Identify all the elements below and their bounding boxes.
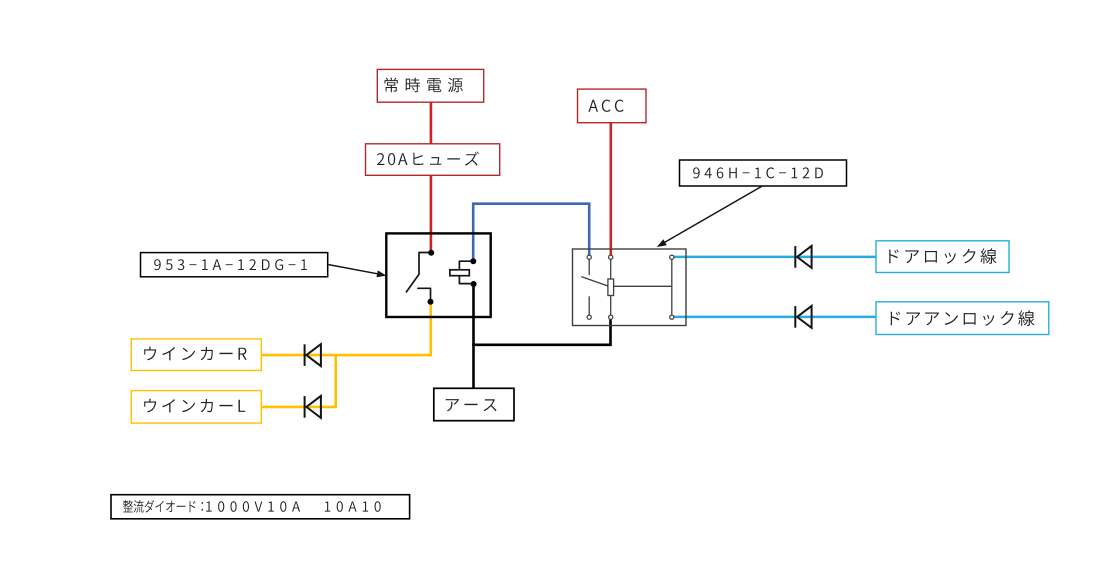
relay K1 switch lower terminal path [418,288,431,301]
relay K2 switch blade [581,277,608,287]
relay K2 coil lead lower [610,296,612,316]
relay K2 output vertical link [671,260,673,316]
relay K1 coil lead upper [459,261,473,270]
wire black: ground junction down to earth box [472,345,475,389]
relay K1 coil lead lower [459,276,473,284]
callout arrow to relay K2 [664,186,763,243]
diode D2 (winker L branch) [304,396,306,418]
wire yellow: relay K1 switch output down [429,303,432,356]
relay K1 body 953-1A-12DG-1 [386,233,490,317]
diode D4 (door unlock line) [794,306,796,328]
relay K2 body 946H-1C-12D [573,249,687,326]
wire yellow: horizontal to winker R [261,354,432,357]
wire black: ground bus up to relay K2 coil pin [609,319,612,346]
relay K1 switch contact path [406,253,431,292]
relay K1 coil pin dot (blue side) [470,258,476,264]
wire black: ground bus horizontal [472,343,610,346]
relay K2 pin terminal top-mid [609,255,613,259]
relay K1 pin dot output (yellow) [428,299,434,305]
wire black: relay K1 coil to ground junction [472,285,475,346]
node box 常時電源 (constant power) [377,69,483,102]
relay K2 pin terminal bottom-left [587,315,591,319]
callout arrow to relay K1 [329,265,380,275]
diode D3 (door lock line) [794,246,796,268]
relay K1 coil pin dot (black side) [471,281,477,287]
node box ドアアンロック線 (door unlock wire) [876,302,1049,335]
note box 整流ダイオード spec [111,495,410,519]
fuse box 20Aヒューズ [366,144,500,176]
wire red: 20A fuse to relay K1 pin [430,175,433,253]
node box ドアロック線 (door lock wire) [876,241,1009,273]
relay K1 coil body [450,270,469,276]
relay K1 pin dot common (red feed) [428,250,434,256]
label box 946H-1C-12D [680,160,847,186]
ground box アース (earth) [434,388,514,420]
relay K2 pin terminal bottom-mid [609,315,613,319]
relay K2 lower-left lead [588,296,590,315]
relay K2 common lead [588,260,590,276]
label box 953-1A-12DG-1 [141,253,328,277]
node box ACC [578,89,647,123]
wire blue: relay K1 coil to relay K2 pin [473,204,589,259]
relay K2 coil lead upper [610,260,612,280]
wire red: 常時電源 to 20A fuse [430,102,433,145]
node box ウインカーL (winker L) [131,391,261,424]
relay K2 pin terminal bottom-right [670,315,674,319]
wire red: ACC to relay K2 coil pin [609,122,612,255]
relay K2 coil-to-output link [614,285,672,287]
wire cyan: relay K2 output to door unlock line [673,316,877,319]
wire yellow: winker L branch [261,406,337,409]
relay K2 pin terminal top-left [587,255,591,259]
wire cyan: relay K2 output to door lock line [673,256,877,259]
node box ウインカーR (winker R) [131,339,261,371]
wire yellow: junction drop to winker L branch [334,355,337,408]
relay K2 pin terminal top-right [670,255,674,259]
relay K2 coil body [608,279,614,296]
diode D1 (winker R branch) [304,344,306,366]
